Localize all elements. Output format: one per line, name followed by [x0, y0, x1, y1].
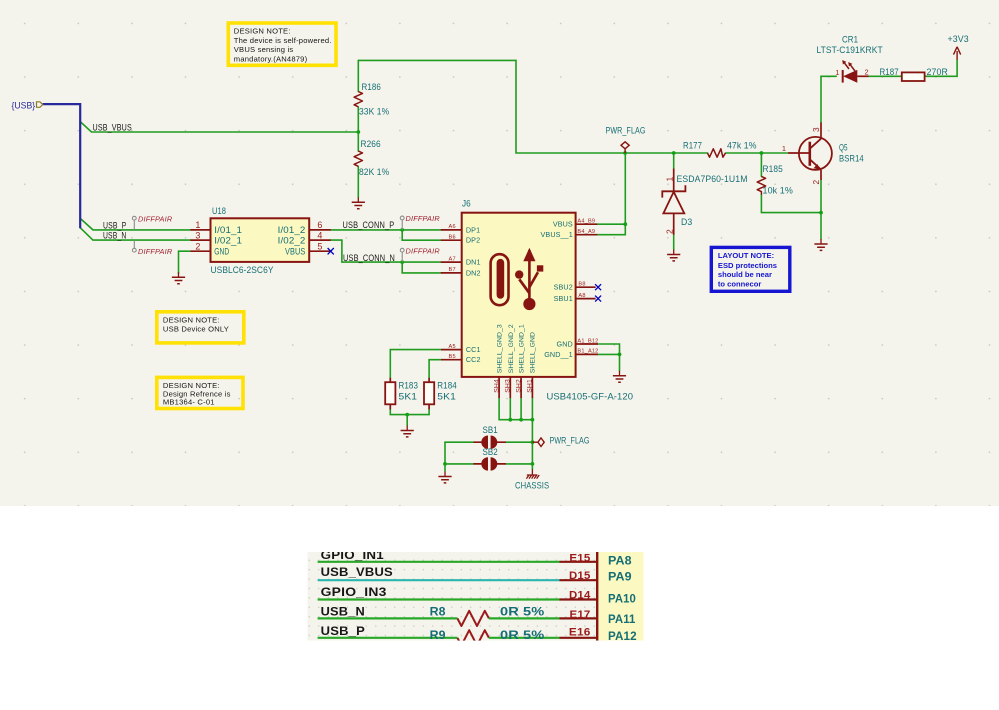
- svg-text:B8: B8: [578, 282, 585, 288]
- ground at J6 GND pins: [613, 371, 626, 382]
- diode D3 ESD (TVS): [662, 185, 685, 213]
- junction USB_CONN_P: [400, 228, 404, 232]
- J6 pin B8 stub: [576, 286, 596, 288]
- wire R187 to +3V3: [925, 60, 958, 77]
- junction J6 GND pins: [618, 353, 622, 357]
- wire CC2 to R184: [429, 360, 441, 378]
- diffpair marker USB_CONN_N: [400, 248, 404, 262]
- Q5 base stub: [788, 152, 810, 154]
- svg-text:R185: R185: [763, 164, 783, 174]
- svg-text:GPIO_IN1: GPIO_IN1: [321, 548, 384, 562]
- J6 pin numbers right: [577, 219, 598, 355]
- svg-text:B1_A12: B1_A12: [577, 349, 598, 355]
- svg-text:DP2: DP2: [466, 236, 480, 245]
- svg-text:ESDA7P60-1U1M: ESDA7P60-1U1M: [677, 174, 748, 184]
- svg-text:USB_VBUS: USB_VBUS: [321, 565, 393, 579]
- svg-text:A1_B12: A1_B12: [577, 338, 598, 344]
- design note box: design reference MB1364: [157, 377, 243, 408]
- wire USB_P left: [318, 637, 458, 639]
- wire USB_P right: [489, 637, 560, 639]
- svg-text:SHELL_GND_1: SHELL_GND_1: [519, 324, 526, 373]
- diffpair marker USB_P: [132, 216, 136, 230]
- J6 pin names left: [466, 225, 481, 364]
- svg-text:5K1: 5K1: [399, 392, 418, 402]
- Q5 collector stub: [820, 123, 822, 138]
- svg-text:PA8: PA8: [608, 555, 632, 568]
- svg-text:PWR_FLAG: PWR_FLAG: [550, 436, 590, 446]
- svg-text:PWR_FLAG: PWR_FLAG: [606, 126, 646, 136]
- junction USB_CONN_N: [400, 260, 404, 264]
- wire SH2 down: [520, 398, 522, 420]
- chassis ground under SB column: [526, 469, 539, 478]
- wire J6 GND pin to corner: [598, 344, 620, 354]
- transistor Q5 BSR14: [799, 137, 832, 170]
- junction PWR_FLAG: [623, 151, 627, 155]
- svg-text:R187: R187: [880, 67, 899, 77]
- junction dots: [356, 130, 822, 466]
- U18 pin 2 stub: [190, 250, 210, 252]
- resistor R177 zigzag: [708, 149, 726, 157]
- svg-text:SBU2: SBU2: [554, 283, 573, 292]
- wire SH4 down: [499, 398, 532, 420]
- wire GPIO_IN3: [318, 598, 560, 600]
- pin stub D15: [560, 579, 598, 581]
- svg-text:GND__1: GND__1: [544, 350, 573, 359]
- R184 leads: [428, 378, 430, 410]
- wire USB_N left: [318, 617, 458, 619]
- ground under R183/R184: [401, 426, 414, 437]
- wire SB1 row right: [506, 441, 533, 443]
- svg-text:should be near: should be near: [718, 270, 772, 279]
- J6 pin B7 stub: [441, 272, 462, 274]
- svg-text:E17: E17: [570, 609, 591, 621]
- svg-text:SHELL_GND: SHELL_GND: [529, 332, 536, 373]
- svg-text:SBU1: SBU1: [554, 294, 573, 303]
- svg-text:USB_P: USB_P: [103, 220, 126, 230]
- wire USB_CONN_P from U18 pin6 to J6 DP1: [331, 229, 441, 231]
- pin stub E16: [560, 637, 598, 639]
- svg-text:1: 1: [195, 220, 200, 230]
- resistor R9 zigzag: [457, 630, 489, 645]
- svg-text:2: 2: [865, 68, 869, 77]
- solder bridge SB1: [481, 436, 497, 449]
- svg-text:B7: B7: [449, 267, 456, 273]
- svg-text:47k 1%: 47k 1%: [727, 140, 757, 150]
- resistor R187 body: [902, 72, 925, 81]
- svg-text:SH1: SH1: [527, 379, 534, 393]
- wire junction row to ground: [406, 415, 408, 426]
- wire left drop SB1 to SB2: [444, 442, 446, 464]
- ground under U18 pin2: [172, 272, 185, 283]
- svg-text:USB_VBUS: USB_VBUS: [93, 122, 132, 132]
- D3 pin 2 stub: [673, 213, 675, 234]
- junction SB1 right: [531, 440, 535, 444]
- wire USB_VBUS (highlighted teal): [318, 579, 560, 581]
- connector J6 USB4105 body: [462, 213, 576, 377]
- svg-text:PA12: PA12: [608, 630, 637, 643]
- wire USB_P from bus entry to U18 pin1: [80, 218, 190, 230]
- svg-text:USB_CONN_P: USB_CONN_P: [343, 220, 395, 230]
- svg-text:J6: J6: [462, 199, 471, 209]
- svg-text:B5: B5: [449, 354, 456, 360]
- svg-text:CR1: CR1: [842, 34, 858, 44]
- wire J6 VBUS to vertical riser: [597, 153, 625, 224]
- svg-text:A8: A8: [578, 293, 585, 299]
- pin stubs (dark red): [190, 76, 868, 464]
- svg-text:1: 1: [782, 144, 786, 153]
- J6 pin A4_B9 stub: [576, 223, 598, 225]
- U18 pin 3 stub: [190, 239, 210, 241]
- svg-text:Q5: Q5: [839, 143, 848, 153]
- svg-text:DN2: DN2: [466, 268, 481, 277]
- J6 pin SH4 stub: [498, 377, 500, 398]
- svg-text:USB_N: USB_N: [103, 231, 126, 241]
- design note box: USB Device ONLY: [157, 312, 244, 343]
- J6 pin B6 stub: [441, 239, 462, 241]
- J6 pin B4_A9 stub: [576, 234, 598, 236]
- svg-text:The device is self-powered.: The device is self-powered.: [234, 36, 332, 45]
- junction VBUS riser: [623, 222, 627, 226]
- svg-text:270R: 270R: [927, 67, 949, 77]
- svg-text:82K 1%: 82K 1%: [359, 167, 389, 177]
- junction SH3: [508, 418, 512, 422]
- resistor R184 body: [424, 382, 434, 404]
- hier pin chevron for {USB}: [37, 102, 43, 108]
- svg-text:GPIO_IN3: GPIO_IN3: [321, 585, 387, 599]
- svg-text:5K1: 5K1: [437, 392, 456, 402]
- wire PWR net right of R177 to Q5 base: [726, 152, 789, 154]
- wire LED cathode to R187: [869, 75, 902, 77]
- snippet sheet background: [307, 552, 643, 641]
- svg-text:10k 1%: 10k 1%: [763, 186, 793, 196]
- svg-text:I/01_2: I/01_2: [278, 225, 306, 235]
- svg-text:B4_A9: B4_A9: [577, 229, 595, 235]
- J6 pin A5 stub: [441, 349, 462, 351]
- ground under D3: [667, 250, 680, 261]
- J6 pin SH1 stub: [531, 377, 533, 398]
- svg-text:1: 1: [835, 68, 839, 77]
- svg-text:R183: R183: [399, 381, 419, 391]
- U18 pin 6 stub: [309, 229, 331, 231]
- svg-text:MB1364- C-01: MB1364- C-01: [163, 398, 215, 407]
- wire USB_CONN_N from U18 pin4 to J6 DN1: [331, 240, 441, 262]
- wire CC1 to R183: [390, 350, 441, 378]
- LED CR1 anode stub: [857, 75, 868, 77]
- svg-text:SH2: SH2: [515, 379, 522, 393]
- svg-text:USBLC6-2SC6Y: USBLC6-2SC6Y: [211, 265, 274, 275]
- svg-text:6: 6: [317, 220, 322, 230]
- power flag PWR_FLAG (top): [621, 142, 629, 153]
- svg-text:VBUS: VBUS: [285, 247, 305, 257]
- no-connect X at U18 pin5: [328, 248, 334, 254]
- wire GPIO_IN1: [318, 561, 560, 563]
- U18 pin 4 stub: [309, 239, 331, 241]
- svg-text:PA10: PA10: [608, 593, 636, 606]
- svg-text:USB_P: USB_P: [321, 624, 365, 638]
- junction SB2 right: [531, 462, 535, 466]
- J6 pin SH3 stub: [509, 377, 511, 398]
- svg-text:I/02_1: I/02_1: [214, 236, 242, 246]
- U18 pin 5 stub: [309, 250, 331, 252]
- svg-text:BSR14: BSR14: [839, 153, 864, 163]
- svg-text:VBUS__1: VBUS__1: [541, 230, 573, 239]
- svg-text:CC2: CC2: [466, 355, 481, 364]
- schematic sheet background: [0, 0, 999, 506]
- svg-text:ESD protections: ESD protections: [718, 261, 777, 270]
- svg-text:GND: GND: [557, 340, 573, 349]
- svg-text:I/01_1: I/01_1: [214, 225, 242, 235]
- svg-text:USB Device ONLY: USB Device ONLY: [163, 325, 229, 334]
- svg-text:to connecor: to connecor: [718, 280, 762, 289]
- svg-text:2: 2: [195, 242, 200, 252]
- svg-text:SH3: SH3: [505, 379, 512, 393]
- wire SH3 down: [509, 398, 511, 420]
- svg-text:R186: R186: [362, 82, 381, 92]
- svg-text:E15: E15: [569, 552, 591, 564]
- svg-text:+3V3: +3V3: [948, 34, 969, 44]
- resistor R183 body: [385, 382, 395, 404]
- wire USB_N right: [489, 617, 560, 619]
- svg-text:E16: E16: [569, 627, 591, 639]
- wire R186 bottom to junction to R266 top: [357, 107, 359, 151]
- resistor R8 zigzag: [457, 611, 489, 626]
- resistor R185 zigzag: [757, 176, 765, 194]
- junction R177/R185/base: [760, 151, 764, 155]
- wire D3 top: [673, 153, 675, 169]
- svg-text:DN1: DN1: [466, 258, 481, 267]
- junction SH2: [519, 418, 523, 422]
- wire SB2 row right: [506, 463, 533, 465]
- J6 pin B5 stub: [441, 359, 462, 361]
- svg-text:D14: D14: [569, 590, 591, 602]
- SB1 stubs: [473, 441, 506, 443]
- svg-text:A7: A7: [449, 256, 456, 262]
- svg-text:R184: R184: [437, 381, 457, 391]
- svg-text:R8: R8: [430, 605, 446, 619]
- layout note box: ESD protections near connector: [711, 247, 790, 291]
- solder bridge SB2: [481, 457, 497, 470]
- svg-text:4: 4: [317, 230, 322, 240]
- junction emitter rail: [819, 211, 823, 215]
- wire SB1 row left: [445, 441, 473, 443]
- diffpair marker USB_N: [132, 240, 136, 252]
- svg-text:CHASSIS: CHASSIS: [515, 480, 549, 490]
- ground under R266: [352, 197, 365, 208]
- J6 pin A8 stub: [576, 298, 596, 300]
- wire Q5 collector up to LED row: [821, 76, 836, 122]
- svg-text:R9: R9: [430, 628, 446, 642]
- wire bus-entry USB_VBUS diagonal + horizontal to divider: [80, 122, 358, 132]
- svg-text:SHELL_GND_2: SHELL_GND_2: [508, 324, 515, 373]
- svg-text:A5: A5: [449, 344, 456, 350]
- svg-text:SH4: SH4: [493, 379, 500, 393]
- J6 pin numbers left: [449, 224, 456, 360]
- svg-text:2: 2: [811, 180, 821, 185]
- wire junction down to R185 top: [760, 153, 762, 176]
- wire USB_CONN_P branch to DP2: [402, 230, 441, 240]
- svg-text:LAYOUT NOTE:: LAYOUT NOTE:: [718, 251, 774, 260]
- svg-text:USB_N: USB_N: [321, 605, 365, 619]
- svg-text:DIFFPAIR: DIFFPAIR: [406, 214, 440, 223]
- D3 pin 1 stub: [673, 169, 675, 192]
- wire USB_N from bus entry to U18 pin3: [80, 228, 190, 240]
- svg-text:DIFFPAIR: DIFFPAIR: [138, 214, 172, 223]
- ground under Q5 emitter: [814, 239, 827, 250]
- svg-text:USB4105-GF-A-120: USB4105-GF-A-120: [547, 392, 634, 402]
- svg-text:R266: R266: [361, 139, 381, 149]
- svg-text:mandatory.(AN4879): mandatory.(AN4879): [234, 55, 308, 64]
- wire R186 top lead: [357, 60, 359, 91]
- J6 USB-C receptacle glyph: [491, 254, 509, 305]
- svg-text:R177: R177: [683, 140, 702, 150]
- svg-text:DESIGN NOTE:: DESIGN NOTE:: [163, 316, 220, 325]
- resistor R186 zigzag: [354, 92, 362, 107]
- diffpair marker USB_CONN_P: [400, 216, 404, 230]
- svg-text:SB2: SB2: [483, 447, 498, 457]
- J6 pin A1_B12 stub: [576, 343, 598, 345]
- wire SB2 row left: [445, 463, 473, 465]
- power flag PWR_FLAG (at SB1): [532, 438, 544, 447]
- SB2 stubs: [473, 463, 506, 465]
- wire R266 bottom to ground: [357, 167, 359, 198]
- wire R185 bottom to emitter rail: [761, 195, 821, 213]
- Q5 emitter stub: [820, 170, 822, 180]
- J6 pin B1_A12 stub: [576, 353, 598, 355]
- J6 USB trident glyph: [515, 248, 543, 310]
- R183 leads: [389, 378, 391, 410]
- junction R183/R184 row: [405, 413, 409, 417]
- svg-text:0R 5%: 0R 5%: [500, 628, 544, 642]
- LED CR1: [842, 60, 857, 83]
- svg-text:33K 1%: 33K 1%: [359, 107, 389, 117]
- ground under SB2 left: [444, 464, 446, 472]
- wire SB2 junction to chassis: [531, 464, 533, 469]
- svg-text:0R 5%: 0R 5%: [500, 605, 544, 619]
- svg-text:{USB}: {USB}: [12, 101, 36, 111]
- J6 pin SH2 stub: [520, 377, 522, 398]
- svg-text:USB_CONN_N: USB_CONN_N: [343, 253, 395, 263]
- svg-text:PA11: PA11: [608, 613, 636, 626]
- junction SH1: [531, 418, 535, 422]
- design note box: device is self-powered: [228, 23, 336, 65]
- power symbol +3V3: [954, 47, 961, 60]
- junction SB2 left: [443, 462, 447, 466]
- J6 shell pin numbers vertical: [493, 379, 533, 393]
- svg-text:B6: B6: [449, 235, 456, 241]
- svg-text:VBUS: VBUS: [553, 220, 573, 229]
- no-connect X at SBU2: [595, 284, 601, 290]
- J6 pin names right: [541, 220, 573, 359]
- svg-text:GND: GND: [214, 247, 229, 257]
- svg-text:LTST-C191KRKT: LTST-C191KRKT: [817, 45, 883, 55]
- pin stub D14: [560, 598, 598, 600]
- wire USB_CONN_N branch to DN2: [402, 262, 441, 273]
- wire J6 VBUS_1 joins riser: [597, 224, 625, 235]
- svg-text:SHELL_GND_3: SHELL_GND_3: [497, 324, 504, 373]
- snippet component body (yellow strip): [598, 552, 643, 641]
- junction D3: [672, 151, 676, 155]
- wire J6 GND_1 pin to junction and down to ground: [598, 354, 620, 370]
- IC U18 USBLC6-2SC6Y body: [211, 218, 310, 262]
- svg-text:2: 2: [664, 229, 674, 234]
- J6 pin A7 stub: [441, 261, 462, 263]
- svg-text:5: 5: [317, 242, 322, 252]
- resistor R266 zigzag: [354, 151, 362, 166]
- J6 shell pin names vertical: [497, 324, 537, 373]
- svg-text:I/02_2: I/02_2: [278, 236, 306, 246]
- svg-text:3: 3: [195, 230, 200, 240]
- svg-text:3: 3: [811, 127, 821, 132]
- svg-text:D15: D15: [569, 570, 591, 582]
- svg-text:A6: A6: [449, 224, 456, 230]
- wire R183 bottom to junction row: [390, 409, 429, 414]
- svg-text:DIFFPAIR: DIFFPAIR: [406, 246, 440, 255]
- U18 pin 1 stub: [190, 229, 210, 231]
- svg-text:PA9: PA9: [608, 571, 632, 584]
- svg-text:U18: U18: [212, 206, 226, 216]
- svg-text:DP1: DP1: [466, 225, 480, 234]
- wire U18 pin2 to ground: [179, 251, 191, 273]
- svg-text:A4_B9: A4_B9: [577, 219, 595, 225]
- wire D3 bottom to ground: [673, 235, 675, 250]
- svg-text:CC1: CC1: [466, 345, 481, 354]
- wire SH1 down through SB rows: [531, 398, 533, 464]
- bus {USB}: [43, 104, 81, 228]
- pin stub E17: [560, 617, 598, 619]
- svg-text:SB1: SB1: [483, 425, 498, 435]
- J6 pin A6 stub: [441, 229, 462, 231]
- svg-text:DIFFPAIR: DIFFPAIR: [138, 247, 172, 256]
- pin stub E15: [560, 561, 598, 563]
- svg-text:D3: D3: [681, 217, 692, 227]
- svg-text:1: 1: [664, 177, 674, 182]
- snippet component left edge: [596, 552, 598, 641]
- svg-text:DESIGN NOTE:: DESIGN NOTE:: [234, 27, 291, 36]
- wire Q5 emitter to rail and ground: [820, 180, 822, 239]
- wire top net from R186 top to corner and down to PWR net: [358, 60, 707, 153]
- svg-text:VBUS sensing is: VBUS sensing is: [234, 45, 294, 54]
- no-connect X at SBU1: [595, 296, 601, 302]
- junction R186/R266/USB_VBUS: [356, 130, 360, 134]
